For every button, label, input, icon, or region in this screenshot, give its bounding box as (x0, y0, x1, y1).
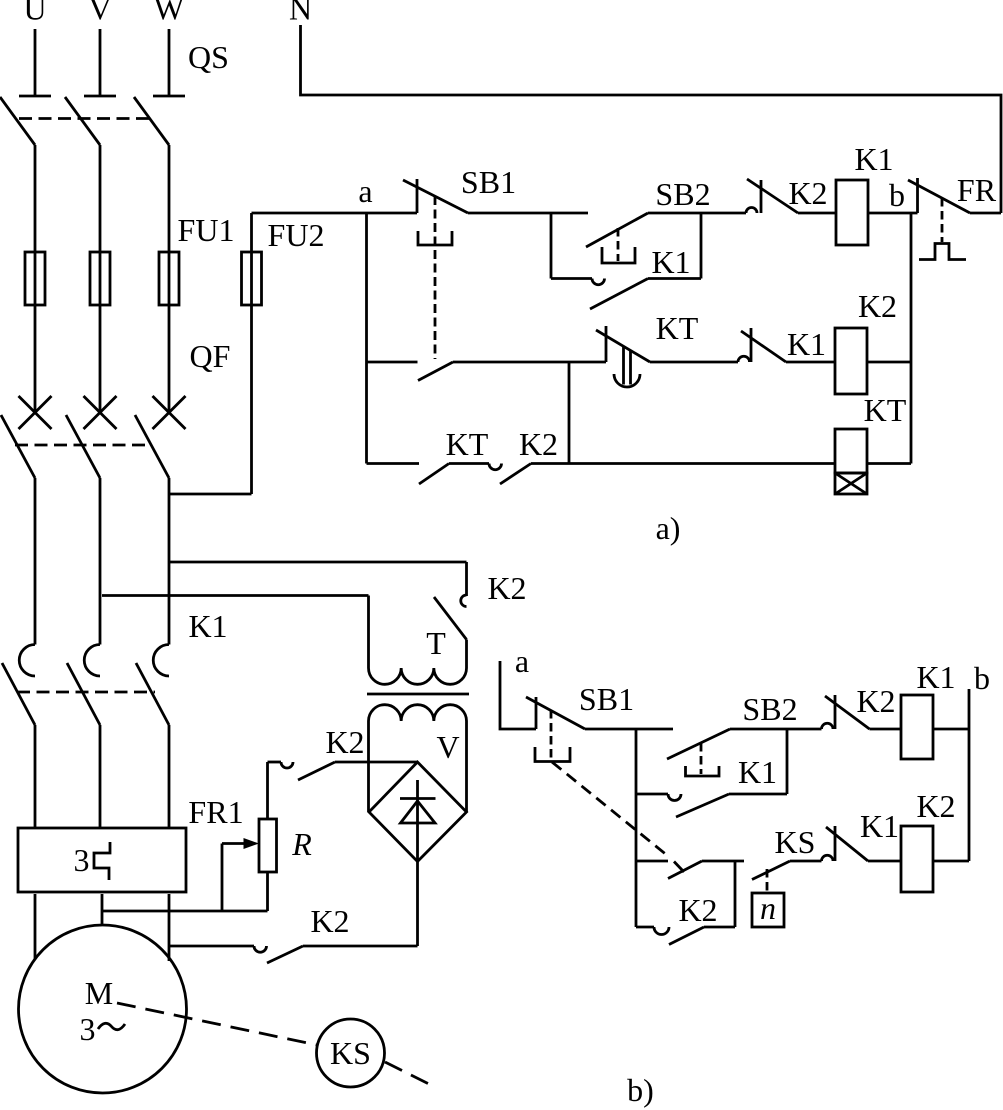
contact K1 NC (row 2) (738, 328, 786, 362)
time relay KT NO contact label (row 3) (446, 426, 489, 462)
caption b) (627, 1072, 654, 1108)
svg-text:3: 3 (74, 842, 90, 878)
thermal overload FR1 label (188, 794, 243, 830)
svg-text:K2: K2 (916, 788, 955, 824)
wire K1 contact to coil K2 (section b) (868, 860, 901, 863)
thermal relay FR label (957, 172, 997, 208)
fuse FU2 label (268, 217, 325, 253)
contact K2 NO label (at R) (325, 724, 364, 760)
svg-text:SB1: SB1 (461, 164, 516, 200)
coil K2 (section b) (901, 826, 933, 892)
rectifier V bridge (369, 762, 467, 862)
right rail section b (968, 689, 971, 861)
wire W tap to transformer branch (169, 561, 467, 564)
wire phase W QS to QF (168, 145, 171, 412)
contact K1 NC label (section b row 3) (860, 808, 899, 844)
svg-text:SB2: SB2 (655, 176, 710, 212)
contact K2 NC (row 1) (746, 179, 798, 213)
svg-text:M: M (85, 975, 113, 1011)
node b junction vertical (910, 213, 913, 464)
contactor K1 main contact pole 2 (67, 645, 100, 829)
speed switch KS label (330, 1035, 371, 1071)
svg-text:FU1: FU1 (178, 212, 235, 248)
motor shaft dashed right (385, 1062, 433, 1086)
svg-text:FR1: FR1 (188, 794, 243, 830)
svg-text:KT: KT (864, 392, 907, 428)
speed switch KS circle (317, 1019, 385, 1087)
wire coil K1 to node b (section b) (933, 728, 969, 731)
wire phase V tap to transformer (102, 594, 369, 597)
KS actuator dashed (766, 869, 769, 893)
wire coil K2 to right rail (section b) (933, 860, 969, 863)
svg-text:K1: K1 (916, 659, 955, 695)
caption a) (656, 510, 681, 546)
pushbutton SB2 actuator dashed (section b) (700, 743, 703, 774)
node a junction vertical (365, 213, 368, 464)
svg-text:K2: K2 (856, 683, 895, 719)
KS speed box n (752, 890, 784, 927)
wire row3 to junction (section b) (702, 860, 744, 863)
transformer T label (426, 625, 446, 661)
wire coil K1 to node b (868, 212, 918, 215)
wire phase U QS to QF (34, 145, 37, 412)
wire FU2 to SB1 (252, 212, 418, 215)
pushbutton SB2 NO contact (586, 213, 648, 247)
coil K2 label (858, 288, 897, 324)
svg-text:T: T (426, 625, 446, 661)
svg-text:K1: K1 (738, 754, 777, 790)
coil K2 label (section b) (916, 788, 955, 824)
svg-text:K2: K2 (788, 175, 827, 211)
circuit breaker QF pole 3 (135, 396, 186, 478)
svg-text:K2: K2 (325, 724, 364, 760)
svg-text:QS: QS (188, 39, 229, 75)
thermal relay FR actuator dashed (941, 198, 944, 242)
contact K2 NC label (section b row 1) (856, 683, 895, 719)
wire phase W FR1 to motor (168, 894, 171, 961)
wire row3 node a to KT contact (367, 462, 420, 465)
pushbutton SB2 NO contact (section b) (667, 729, 730, 759)
wire phase U FR1 to motor (34, 894, 37, 959)
pushbutton SB2 head (602, 247, 635, 263)
svg-text:K1: K1 (787, 326, 826, 362)
svg-text:K2: K2 (487, 570, 526, 606)
contact K2 NO (R branch) (268, 762, 418, 780)
svg-text:K2: K2 (519, 426, 558, 462)
wire phase U QF to K1 (34, 478, 37, 645)
contact K1 NC (section b row 3) (822, 826, 869, 861)
svg-text:a: a (358, 173, 372, 209)
thermal overload FR1 box (18, 828, 186, 892)
svg-text:W: W (154, 0, 185, 27)
pushbutton SB2 label (655, 176, 710, 212)
junction vertical row2-row3 (568, 362, 571, 464)
junction vertical SB2 branch (786, 729, 789, 794)
motor M circle (19, 925, 187, 1093)
FR1 heater element symbol (94, 842, 110, 880)
svg-text:b): b) (627, 1072, 654, 1108)
pushbutton SB1 head (418, 231, 452, 245)
pushbutton SB2 actuator dashed (617, 228, 620, 261)
wire W tap to FU2 (169, 493, 252, 496)
contact K1 NC label (row 2) (787, 326, 826, 362)
motor shaft dashed left (117, 1003, 317, 1045)
node a (358, 173, 372, 209)
wire phase W QF to K1 (168, 478, 171, 645)
node a (section b) (515, 643, 529, 679)
contact K1 self-hold (section b) (636, 794, 787, 817)
motor M label (85, 975, 113, 1011)
coil K2 (835, 328, 867, 394)
contact K2 NC (section b row 1) (822, 695, 870, 729)
contact K2 NO label (row 3) (519, 426, 558, 462)
wire row3 left (section b) (636, 860, 668, 863)
svg-text:K1: K1 (854, 141, 893, 177)
svg-text:R: R (291, 826, 312, 862)
QF linkage dashed (15, 444, 152, 447)
transformer T core (367, 693, 469, 696)
svg-text:KT: KT (656, 310, 699, 346)
wire KT to K2 contact row3 (449, 462, 489, 465)
pushbutton SB1 label (461, 164, 516, 200)
coil K1 (836, 180, 868, 245)
speed switch KS NO contact (752, 861, 790, 880)
wire phase V QS to QF (99, 145, 102, 412)
wire K2 contact to coil K1 (section b) (870, 728, 902, 731)
time relay KT delayed NC contact label (656, 310, 699, 346)
circuit breaker QF pole 2 (66, 396, 117, 478)
circuit breaker QF pole 1 (1, 396, 52, 478)
fuse FU1 pole 1 (25, 252, 45, 305)
pushbutton SB1 NC contact (section b) (526, 697, 585, 729)
disconnect switch QS label (188, 39, 229, 75)
K1 main linkage dashed (17, 691, 155, 694)
wire N down and across to right rail (301, 25, 1002, 213)
disconnect switch QS pole 3 (134, 96, 185, 145)
contactor K1 main contacts label (188, 608, 227, 644)
svg-text:K2: K2 (678, 892, 717, 928)
rectifier diode (400, 780, 436, 946)
time relay coil KT (835, 429, 867, 494)
fuse FU1 pole 2 (90, 252, 110, 305)
pushbutton SB2 label (section b) (742, 691, 797, 727)
left rail section b (635, 729, 638, 927)
time relay KT NO contact (row 3) (419, 464, 449, 485)
svg-text:V: V (436, 729, 459, 765)
wire phase V to R bottom (102, 910, 268, 913)
time relay coil KT label (864, 392, 907, 428)
rectifier V label (436, 729, 459, 765)
SB1 linkage dashed diagonal (552, 762, 668, 856)
fuse FU1 pole 3 (159, 252, 179, 305)
wire phase V FR1 to motor (101, 894, 104, 925)
wire SB2 to K2 contact (section b) (730, 728, 822, 731)
disconnect switch QS pole 1 (0, 96, 51, 145)
contact K1 self-hold label (651, 244, 690, 280)
QS linkage dashed (19, 117, 150, 120)
pushbutton SB1 linked NO contact (row 2) (418, 362, 453, 381)
node U (23, 0, 46, 27)
wire V stub (99, 29, 102, 95)
wire coil K2 to right rail (867, 361, 911, 364)
node b (section b) (974, 660, 990, 696)
disconnect switch QS pole 2 (65, 96, 116, 145)
wire K2 contact to coil K1 (798, 212, 836, 215)
svg-text:QF: QF (190, 338, 231, 374)
node W (154, 0, 185, 27)
svg-text:b: b (974, 660, 990, 696)
pushbutton SB1 linked NO contact (section b row 3) (668, 861, 702, 879)
svg-text:N: N (289, 0, 312, 27)
svg-text:FR: FR (957, 172, 997, 208)
wire FR to right rail (970, 212, 1001, 215)
wire node a section b (500, 661, 536, 729)
wire SB1 to SB2 (section b) (585, 728, 673, 731)
svg-text:SB2: SB2 (742, 691, 797, 727)
thermal relay FR NC contact (908, 178, 970, 213)
svg-text:3: 3 (80, 1011, 96, 1047)
coil K1 label (854, 141, 893, 177)
circuit breaker QF label (190, 338, 231, 374)
time relay KT delayed NC contact (596, 326, 650, 387)
pushbutton SB1 NC contact (403, 179, 468, 213)
pushbutton SB1 actuator dashed (434, 196, 437, 359)
svg-text:K1: K1 (651, 244, 690, 280)
contact K2 NO label (section b row 4) (678, 892, 717, 928)
wire KT contact to K1 contact row2 (650, 361, 738, 364)
wire phase V QF to K1 (99, 478, 102, 645)
fuse FU2 (242, 213, 262, 494)
svg-text:KS: KS (330, 1035, 371, 1071)
svg-text:K2: K2 (310, 903, 349, 939)
transformer T secondary winding (369, 705, 467, 812)
svg-text:U: U (23, 0, 46, 27)
svg-text:KS: KS (775, 824, 816, 860)
contact K1 self-hold branch (551, 213, 701, 309)
wire SB1 to SB2 (468, 212, 588, 215)
contact K2 NO (bottom brake circuit) (169, 946, 418, 963)
speed switch KS contact label (775, 824, 816, 860)
node N (289, 0, 312, 27)
transformer T primary winding (369, 596, 467, 685)
coil K1 (section b) (901, 695, 933, 759)
wire row2 node a to SB1 linked contact (367, 361, 418, 364)
wire row3 to coil KT (531, 462, 835, 465)
contact K2 NO label (above transformer) (487, 570, 526, 606)
wire K1 contact to coil K2 (786, 361, 835, 364)
wire row2 to KT contact (453, 361, 606, 364)
contact K2 NO (row 3) (489, 464, 531, 485)
contactor K1 main contact pole 3 (136, 645, 169, 829)
pushbutton SB1 actuator dashed (section b) (550, 710, 553, 760)
svg-text:SB1: SB1 (579, 681, 634, 717)
coil K1 label (section b) (916, 659, 955, 695)
svg-text:K1: K1 (860, 808, 899, 844)
svg-text:K1: K1 (188, 608, 227, 644)
resistor R rheostat (222, 762, 277, 911)
node V (88, 0, 111, 27)
svg-text:a): a) (656, 510, 681, 546)
motor 3-phase label (80, 1011, 126, 1047)
pushbutton SB2 head (section b) (686, 766, 720, 776)
contactor K1 main contact pole 1 (2, 645, 35, 829)
wire KS to K1 contact (section b) (790, 860, 822, 863)
svg-text:FU2: FU2 (268, 217, 325, 253)
wire row4 left (section b) (636, 926, 654, 929)
wire U stub (34, 29, 37, 95)
fuse FU1 label (178, 212, 235, 248)
pushbutton SB1 head (section b) (535, 747, 570, 762)
svg-text:a: a (515, 643, 529, 679)
contact K2 NO label (bottom) (310, 903, 349, 939)
contact K2 NC label (row 1) (788, 175, 827, 211)
wire coil KT to right rail (867, 462, 911, 465)
svg-text:b: b (889, 177, 905, 213)
svg-text:V: V (88, 0, 111, 27)
svg-text:KT: KT (446, 426, 489, 462)
contact K2 NO (transformer primary) (434, 562, 467, 640)
svg-text:n: n (760, 890, 776, 926)
thermal relay FR element symbol (919, 244, 966, 260)
junction vertical row3-row4 (section b) (734, 861, 737, 927)
node b (889, 177, 905, 213)
resistor R label (291, 826, 312, 862)
wire SB2 to K2 contact (648, 212, 746, 215)
svg-text:K2: K2 (858, 288, 897, 324)
contact K1 self-hold label (section b) (738, 754, 777, 790)
contact K2 NO (section b row 4) (654, 927, 735, 945)
FR1 quantity 3 (74, 842, 90, 878)
pushbutton SB1 label (section b) (579, 681, 634, 717)
wire W stub (168, 29, 171, 95)
